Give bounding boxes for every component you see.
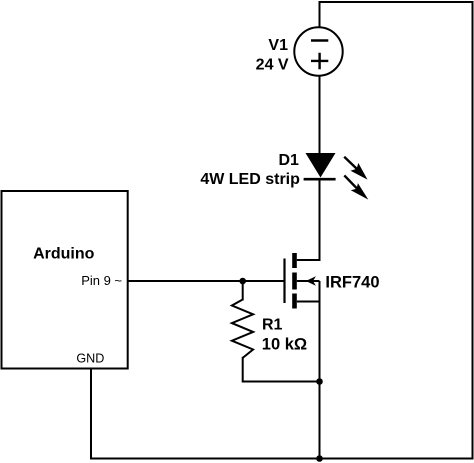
wire gate from Arduino Pin 9 (128, 280, 285, 282)
source lead (297, 301, 320, 303)
body lead with arrow (297, 281, 320, 302)
svg-text:4W LED strip: 4W LED strip (200, 171, 300, 188)
svg-text:10 kΩ: 10 kΩ (262, 336, 307, 354)
resistor R1 (232, 300, 253, 358)
wire LED cathode to MOSFET drain (319, 179, 321, 260)
gate bar (283, 259, 285, 304)
svg-text:Arduino: Arduino (33, 246, 95, 263)
wire bottom rail (91, 458, 473, 460)
svg-text:R1: R1 (262, 317, 283, 334)
svg-text:24 V: 24 V (256, 56, 289, 73)
wire right rail (472, 2, 474, 459)
wire resistor top drop (242, 281, 244, 300)
LED emission arrow 1 (344, 157, 367, 180)
node junction gate/R1 (239, 278, 246, 285)
node junction R1/source (316, 378, 323, 385)
wire top rail (320, 1, 473, 3)
node junction bottom rail (316, 455, 323, 462)
svg-text:Pin 9 ~: Pin 9 ~ (81, 273, 122, 288)
svg-text:D1: D1 (278, 152, 299, 169)
wire V1 top lead (319, 2, 321, 28)
channel segment top (292, 253, 297, 268)
svg-text:IRF740: IRF740 (325, 273, 379, 291)
wire source node down to bottom rail (319, 302, 321, 459)
LED emission arrow 2 (344, 175, 368, 199)
svg-text:V1: V1 (268, 37, 288, 54)
wire V1 bottom lead to LED anode (319, 76, 321, 154)
channel segment middle (292, 273, 297, 290)
wire GND drop from Arduino (90, 369, 92, 459)
wire resistor bottom to source node (243, 358, 320, 382)
channel segment bottom (292, 294, 297, 309)
Arduino box (2, 191, 128, 369)
diode D1 LED (304, 153, 336, 179)
drain lead (297, 259, 320, 261)
transistor Q1 IRF740 MOSFET (285, 253, 320, 309)
voltage source V1 (294, 27, 342, 75)
svg-text:GND: GND (76, 352, 104, 366)
